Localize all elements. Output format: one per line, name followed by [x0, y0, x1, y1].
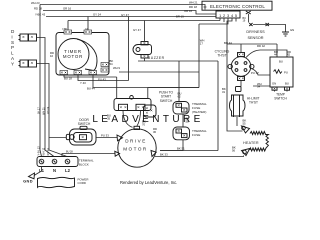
svg-text:BK 33: BK 33 — [160, 153, 168, 157]
svg-text:P: P — [11, 45, 14, 50]
motor terminal right — [151, 151, 156, 157]
wire door switch left — [49, 137, 66, 139]
wires assembly to motor — [123, 111, 141, 128]
wire fuse2 down — [160, 140, 183, 151]
ground GND — [34, 167, 42, 176]
svg-text:SWITCH: SWITCH — [274, 97, 287, 101]
svg-text:HEATER: HEATER — [243, 141, 259, 145]
motor terminal lower-left — [115, 151, 120, 156]
temp switch box S2 — [270, 57, 293, 87]
svg-text:Y-BK 13: Y-BK 13 — [37, 146, 40, 156]
svg-text:SWITCH: SWITCH — [78, 122, 91, 126]
svg-text:PUSH TO: PUSH TO — [159, 90, 174, 94]
wire timer to motor switch y77 — [64, 75, 117, 78]
svg-text:BUZZER: BUZZER — [148, 56, 165, 60]
svg-text:Y-BK 43: Y-BK 43 — [35, 13, 46, 17]
wire assembly right up — [147, 88, 149, 99]
svg-text:BU: BU — [285, 82, 289, 86]
svg-text:DRIVE: DRIVE — [125, 139, 147, 144]
svg-text:OR 16: OR 16 — [184, 9, 193, 13]
svg-text:I: I — [11, 34, 12, 39]
svg-text:BR 15: BR 15 — [176, 15, 184, 19]
svg-text:BLOCK: BLOCK — [79, 162, 89, 166]
wire start area top — [148, 61, 199, 102]
wire heater bottom to motor — [155, 156, 244, 157]
display connector P2 — [19, 60, 37, 67]
svg-text:ELECTRONIC CONTROL: ELECTRONIC CONTROL — [210, 4, 265, 9]
svg-text:GN: GN — [272, 82, 276, 86]
svg-text:WH 23: WH 23 — [31, 1, 40, 5]
svg-text:PU 33: PU 33 — [101, 133, 109, 137]
svg-text:Rendered by LeadVenture, Inc.: Rendered by LeadVenture, Inc. — [120, 180, 177, 185]
svg-text:RD 14: RD 14 — [47, 148, 50, 156]
svg-text:BK 17: BK 17 — [37, 107, 40, 114]
temp box bottom terminals — [272, 87, 277, 90]
svg-text:WH 21: WH 21 — [189, 1, 198, 5]
cycling thermostat TH1 — [228, 53, 254, 81]
terminal stubs below control — [199, 18, 236, 24]
svg-text:GY 47: GY 47 — [121, 13, 129, 17]
connector at control for sensor — [246, 11, 251, 14]
wire WH 23 top — [40, 5, 207, 10]
hi-limit thermostat TH2 — [230, 87, 246, 118]
wire BU 28 to motor lower-left — [62, 154, 115, 157]
svg-text:BU 28: BU 28 — [66, 151, 73, 154]
power cord — [38, 177, 75, 187]
connector pair on sensor lead — [249, 23, 269, 26]
wire stub timer top 1 — [67, 21, 69, 32]
svg-text:N: N — [53, 168, 56, 173]
long vertical x218 — [217, 61, 219, 151]
dryness sensor lead — [249, 14, 286, 32]
svg-text:DRYNESS: DRYNESS — [246, 30, 265, 34]
svg-text:GY 24: GY 24 — [93, 13, 101, 17]
wire left trunk 1 — [40, 5, 42, 157]
svg-text:SENSOR: SENSOR — [247, 36, 263, 40]
electronic control box U1 — [202, 1, 272, 10]
wire y87.5 — [93, 75, 199, 88]
svg-text:WH 21: WH 21 — [42, 107, 45, 115]
svg-text:RD 42: RD 42 — [257, 44, 265, 48]
svg-text:BK 51: BK 51 — [177, 146, 185, 150]
heater element R1 — [250, 132, 269, 152]
svg-text:TH'ST: TH'ST — [249, 101, 258, 105]
thermal fuse F2 — [173, 127, 190, 140]
drive motor M2 — [118, 129, 156, 167]
connector 1-5 of control — [216, 11, 240, 18]
wire stub timer top 2 — [87, 17, 89, 32]
wire between fuses — [182, 114, 184, 127]
wire assembly left up — [116, 77, 118, 99]
terminal block TB — [37, 157, 78, 167]
wire RD 18 — [43, 11, 216, 15]
svg-text:START: START — [161, 95, 171, 99]
timer motor block — [56, 33, 109, 76]
temp resistor — [274, 70, 282, 74]
wire Y-BK 43 — [46, 16, 216, 18]
timer top terminal 1 — [64, 30, 72, 34]
svg-text:L: L — [11, 51, 14, 56]
timer cam — [77, 39, 97, 70]
timer top terminal 2 — [84, 30, 92, 34]
wire from P2 — [37, 64, 68, 157]
svg-text:12345: 12345 — [219, 13, 239, 18]
wire cycling bottom to hi-limit — [240, 81, 242, 87]
heater bottom connector — [242, 149, 250, 156]
wire door switch to motor — [96, 137, 117, 139]
timer bottom terminal 1 — [60, 71, 68, 75]
svg-text:Y 43: Y 43 — [80, 81, 86, 85]
motor terminal top — [134, 126, 140, 129]
svg-text:FUSE: FUSE — [192, 133, 200, 137]
svg-text:BU 44: BU 44 — [224, 41, 232, 45]
ground of dryness sensor — [282, 32, 289, 36]
wire RD 42 — [246, 50, 287, 58]
svg-text:GN: GN — [290, 28, 294, 32]
wire PU 37 — [252, 69, 271, 76]
svg-text:TH'ST: TH'ST — [217, 54, 226, 58]
svg-text:S: S — [11, 40, 14, 45]
heater top connector — [242, 126, 250, 133]
buzzer bottom wire — [138, 58, 218, 61]
wire BU 44 y44 — [227, 44, 277, 57]
svg-text:OR 16: OR 16 — [63, 7, 72, 11]
svg-text:RD 18: RD 18 — [34, 7, 42, 11]
svg-text:BU: BU — [279, 60, 283, 64]
wire BK 51 — [160, 150, 218, 152]
svg-text:GND: GND — [23, 178, 33, 183]
svg-text:RD 24: RD 24 — [47, 106, 50, 114]
wire from P1 — [37, 38, 55, 157]
centrifugal switch assembly — [114, 96, 151, 111]
svg-text:GY 47: GY 47 — [133, 28, 141, 32]
timer right terminal 1 — [101, 63, 109, 67]
motor terminal left — [117, 135, 123, 141]
wire hi-limit to heater connector — [236, 117, 238, 126]
wire vertical x128.5 — [128, 17, 130, 81]
svg-text:MOTOR: MOTOR — [123, 146, 148, 151]
svg-text:Y: Y — [11, 61, 14, 66]
timer right terminal 2 — [101, 68, 109, 72]
svg-text:WH 12: WH 12 — [42, 147, 45, 155]
svg-text:(HEATER): (HEATER) — [192, 110, 206, 114]
timer bottom terminal 2 — [74, 71, 82, 75]
wire heater feed BK — [227, 18, 243, 131]
wire WH 17 vertical — [198, 24, 200, 88]
wire GY 24 — [68, 20, 220, 22]
wire timer to WH17 — [119, 71, 199, 73]
svg-text:L2: L2 — [65, 168, 71, 173]
svg-text:WH 9: WH 9 — [113, 66, 120, 70]
svg-text:CORD: CORD — [78, 181, 87, 185]
svg-text:PU 37: PU 37 — [251, 71, 259, 75]
wire y80.5 — [78, 75, 129, 81]
timer motor circle M1 — [58, 39, 89, 70]
display connector P1 — [19, 34, 37, 41]
timer bottom terminal 3 — [89, 71, 97, 75]
buzzer top wire — [144, 21, 146, 42]
thermal fuse heater F1 — [173, 102, 189, 115]
wire WH 34 — [253, 85, 270, 87]
svg-text:PU: PU — [284, 71, 288, 75]
buzzer BZ — [133, 42, 152, 59]
svg-text:MOTOR: MOTOR — [63, 54, 83, 59]
svg-text:SWITCH: SWITCH — [160, 99, 173, 103]
